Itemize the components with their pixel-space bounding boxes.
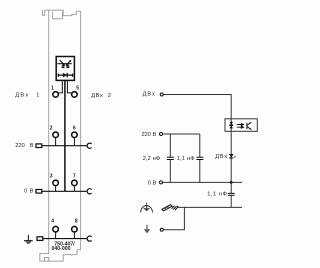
svg-text:8: 8 xyxy=(75,218,78,224)
contact 3 circle xyxy=(53,180,59,186)
wire stub contact 4 xyxy=(55,232,57,239)
wire branch C2 xyxy=(199,134,201,182)
contact 5 circle xyxy=(72,92,78,98)
wire DVx to opto xyxy=(163,95,231,119)
terminal box ground xyxy=(37,237,43,241)
clamp arc 220 V xyxy=(87,143,91,148)
U1 LED D1 bar xyxy=(62,67,65,69)
wire left edge of module xyxy=(48,10,50,253)
svg-text:2: 2 xyxy=(50,126,53,132)
contact 1 circle xyxy=(53,92,59,98)
svg-text:ДВх: ДВх xyxy=(215,154,228,160)
U1 emission arrow a xyxy=(60,60,66,66)
U1 output diode triangle xyxy=(63,73,67,78)
U2 LED hourglass xyxy=(230,122,234,128)
U1 LED D1 triangle xyxy=(61,64,65,67)
wire stub contact 3 xyxy=(55,186,57,192)
svg-text:2: 2 xyxy=(108,93,111,99)
clamp arc ground xyxy=(87,236,91,241)
ground symbol left xyxy=(24,235,33,241)
svg-text:В: В xyxy=(30,143,34,149)
svg-text:В: В xyxy=(30,189,34,195)
svg-text:0: 0 xyxy=(24,189,27,195)
wire ground row xyxy=(43,238,88,240)
svg-text:4: 4 xyxy=(51,218,54,224)
U2 emitter arrowhead xyxy=(249,128,251,130)
terminal circle earth xyxy=(160,228,163,231)
wire stub contact 7 xyxy=(73,186,75,192)
capacitor C2 plates xyxy=(196,157,203,159)
U1 LED D2 triangle xyxy=(66,64,70,67)
U2 arrow b xyxy=(237,126,244,128)
svg-text:1: 1 xyxy=(51,85,54,91)
latch hook top-left xyxy=(42,10,44,15)
terminal circle 220 V xyxy=(160,133,163,136)
svg-text:1,1 нФ: 1,1 нФ xyxy=(207,192,227,198)
svg-text:0 В: 0 В xyxy=(148,180,157,186)
module body outline xyxy=(40,10,81,261)
svg-text:2,2 нФ: 2,2 нФ xyxy=(143,156,161,162)
svg-text:5: 5 xyxy=(76,85,79,91)
top inner window xyxy=(53,11,63,18)
shield ground wedge xyxy=(143,208,150,211)
wire right edge of module xyxy=(80,11,82,250)
wire stub box to contact 1 xyxy=(59,80,63,93)
top edge profile xyxy=(45,10,81,16)
svg-text:1,1 нФ: 1,1 нФ xyxy=(177,156,195,162)
diode D3 triangle xyxy=(229,154,234,158)
wire stub contact 8 xyxy=(73,232,75,239)
svg-text:220: 220 xyxy=(15,143,24,149)
U1 LED D2 bar xyxy=(66,67,69,69)
terminal box 0 V xyxy=(36,190,42,194)
diode D3 tick xyxy=(234,156,235,157)
bottom foot inner hook xyxy=(45,258,49,262)
capacitor C1 plates xyxy=(167,157,174,159)
junction dot node A xyxy=(230,181,233,184)
contact 7 circle xyxy=(72,180,78,186)
svg-text:6: 6 xyxy=(73,126,76,132)
contact 4 circle xyxy=(53,226,59,232)
U2 phototransistor xyxy=(247,122,251,129)
contact 6 circle xyxy=(72,132,78,138)
terminal circle 0 V xyxy=(160,181,163,184)
terminal circle DVx xyxy=(160,93,163,96)
svg-text:220 В: 220 В xyxy=(142,132,157,138)
svg-text:7: 7 xyxy=(73,174,76,180)
wire stub contact 2 xyxy=(55,138,57,146)
bottom foot outline xyxy=(40,250,81,261)
wire 0 V row xyxy=(42,190,88,192)
terminal box 220 V xyxy=(36,144,42,148)
U1 output diode line xyxy=(58,74,73,77)
svg-text:1: 1 xyxy=(36,93,39,99)
U1 output diode bar xyxy=(66,73,68,78)
opto-isolator box U2 xyxy=(225,119,257,132)
chassis ground symbol xyxy=(162,205,172,211)
svg-text:3: 3 xyxy=(50,174,53,180)
wire 220 V top xyxy=(163,133,200,135)
wire stub contact 6 xyxy=(73,138,75,146)
wire 220 V row xyxy=(42,145,88,147)
svg-text:040-000: 040-000 xyxy=(51,246,70,252)
wire branch C1 xyxy=(169,134,171,182)
contact 8 circle xyxy=(72,226,78,232)
wire center internal bus xyxy=(64,80,66,191)
U2 arrow a xyxy=(237,123,244,125)
svg-text:ДВх: ДВх xyxy=(15,93,29,99)
wire 0 V row schematic xyxy=(163,181,242,183)
U1 LED pair line xyxy=(57,63,71,65)
wire opto to diode node xyxy=(230,131,232,182)
wire stub box to contact 5 xyxy=(67,80,71,93)
shield ground symbol circled xyxy=(141,203,153,213)
capacitor C3 plates xyxy=(228,193,235,195)
wire diode node down to C3 xyxy=(230,182,232,207)
clamp arc 0 V xyxy=(87,189,91,194)
U2 input wire through xyxy=(230,119,232,132)
wire earth riser xyxy=(163,207,184,229)
earth bus xyxy=(179,206,242,208)
contact 2 circle xyxy=(53,132,59,138)
U1 emission arrow b xyxy=(66,60,72,66)
opto-isolator box U1 on module xyxy=(56,57,74,81)
svg-text:ДВх: ДВх xyxy=(91,93,103,99)
svg-text:ДВх: ДВх xyxy=(143,92,156,98)
diode D3 bar xyxy=(229,157,233,159)
functional earth arrow xyxy=(146,225,148,230)
